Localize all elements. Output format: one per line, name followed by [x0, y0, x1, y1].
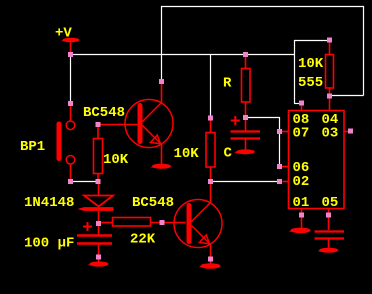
ground under C — [234, 149, 255, 154]
svg-text:02: 02 — [293, 174, 310, 190]
pin 4 stub — [329, 98, 331, 111]
pin 1 stub — [301, 209, 303, 229]
junction node diode cathode — [96, 221, 101, 226]
transistor Q1 BC548 — [125, 83, 173, 164]
wire to R3 top y=40 — [294, 40, 329, 42]
wire button bottom to R1 bottom y=181 — [71, 181, 99, 183]
junction node button bottom — [68, 179, 73, 184]
junction node button top — [68, 101, 73, 106]
resistor R1 10K body — [94, 126, 103, 180]
junction node T2 emitter — [208, 257, 213, 262]
resistor R3 10K body — [326, 43, 334, 95]
junction node C1 bottom — [96, 255, 101, 260]
wire T1 base — [98, 124, 138, 126]
junction node R bottom — [243, 115, 248, 120]
pin 5 stub — [328, 209, 330, 231]
svg-text:BP1: BP1 — [20, 139, 45, 155]
capacitor C polarity plus — [231, 116, 240, 125]
pin 3 stub — [344, 131, 348, 133]
junction node pin 1 — [299, 213, 304, 218]
ground under pin 1 — [289, 228, 311, 234]
capacitor C1 100uF — [77, 226, 112, 263]
wire T2 collector to pin2 y=181 — [211, 181, 281, 183]
pin 8 stub — [301, 106, 303, 111]
svg-text:05: 05 — [322, 195, 339, 211]
ground under Q1 — [150, 164, 171, 169]
wire rail to R2 top x=210 — [210, 54, 212, 118]
junction node T1 collector — [159, 79, 164, 84]
svg-text:C: C — [224, 145, 233, 161]
resistor R2 10K body — [206, 120, 215, 180]
svg-text:1N4148: 1N4148 — [24, 195, 74, 211]
wire +V rail horizontal y=54 — [70, 54, 295, 56]
power +V bar — [61, 38, 80, 43]
wire top feedback horizontal y=6 — [161, 6, 364, 8]
junction node +V — [68, 52, 73, 57]
svg-text:03: 03 — [322, 125, 339, 141]
svg-text:07: 07 — [293, 125, 310, 141]
svg-text:100 µF: 100 µF — [24, 236, 74, 252]
wire pin7 to pin6 vertical x=279.5 — [279, 117, 281, 166]
resistor R body — [242, 56, 251, 115]
wire right feedback vertical x=363.5 — [363, 6, 365, 96]
transistor Q2 BC548 — [174, 184, 222, 264]
push button BP1 — [57, 105, 75, 180]
ground under C1 — [88, 261, 109, 266]
junction node R3 top — [327, 38, 332, 43]
pin 6 stub — [282, 166, 289, 168]
junction node R1 bottom — [96, 179, 101, 184]
resistor R4 22K body — [101, 218, 186, 227]
wire collector T1 vertical x=161.5 — [161, 6, 163, 81]
junction node pin 3 — [348, 129, 353, 134]
IC U1 555 body — [289, 111, 345, 209]
junction node pin 7 — [277, 129, 282, 134]
wire pin8 vertical x=294 — [294, 40, 296, 104]
wire feedback to R3 bottom y=95.5 — [329, 95, 364, 97]
capacitor C3 under pin 5 — [315, 232, 345, 248]
svg-text:22K: 22K — [130, 231, 156, 247]
svg-text:10K: 10K — [174, 146, 200, 162]
svg-text:10K: 10K — [298, 56, 324, 72]
wire +V stem — [70, 41, 72, 52]
svg-text:R: R — [223, 75, 232, 91]
diode D1 1N4148 — [78, 184, 114, 222]
ground under Q2 — [199, 263, 221, 269]
junction node R top — [243, 52, 248, 57]
junction node R1 top base — [96, 122, 101, 127]
junction node R2 bottom — [208, 179, 213, 184]
junction node pin 8 — [299, 101, 304, 106]
capacitor C — [231, 120, 261, 150]
pin 2 stub — [283, 181, 289, 183]
wire RC junction to pins y=117 — [246, 117, 281, 119]
junction node pin 2 — [277, 179, 282, 184]
wire to pin8 y=103 — [294, 103, 301, 105]
svg-text:BC548: BC548 — [83, 105, 125, 121]
capacitor C1 100uF polarity plus — [83, 222, 92, 231]
ground under C3 — [318, 248, 339, 253]
junction node R3 bottom — [327, 94, 332, 99]
pin 7 stub — [282, 131, 289, 133]
svg-text:10K: 10K — [103, 152, 129, 168]
svg-text:BC548: BC548 — [132, 195, 174, 211]
svg-text:555: 555 — [298, 75, 323, 91]
junction node T2 base — [160, 220, 165, 225]
junction node pin 6 — [277, 164, 282, 169]
wire from +V node down to button — [70, 54, 72, 104]
junction node R2 top — [208, 116, 213, 121]
junction node pin 5 — [326, 213, 331, 218]
